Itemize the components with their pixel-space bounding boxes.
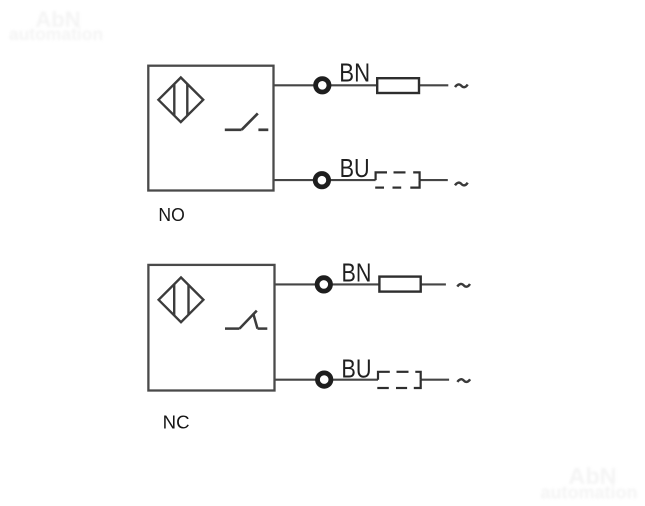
svg-text:automation: automation	[9, 24, 103, 44]
svg-text:BN: BN	[339, 60, 370, 88]
svg-text:NC: NC	[163, 413, 190, 433]
svg-text:BU: BU	[341, 356, 371, 384]
svg-text:BN: BN	[342, 260, 372, 288]
svg-text:BU: BU	[340, 155, 370, 183]
svg-text:NO: NO	[158, 205, 184, 225]
svg-text:automation: automation	[541, 483, 638, 503]
